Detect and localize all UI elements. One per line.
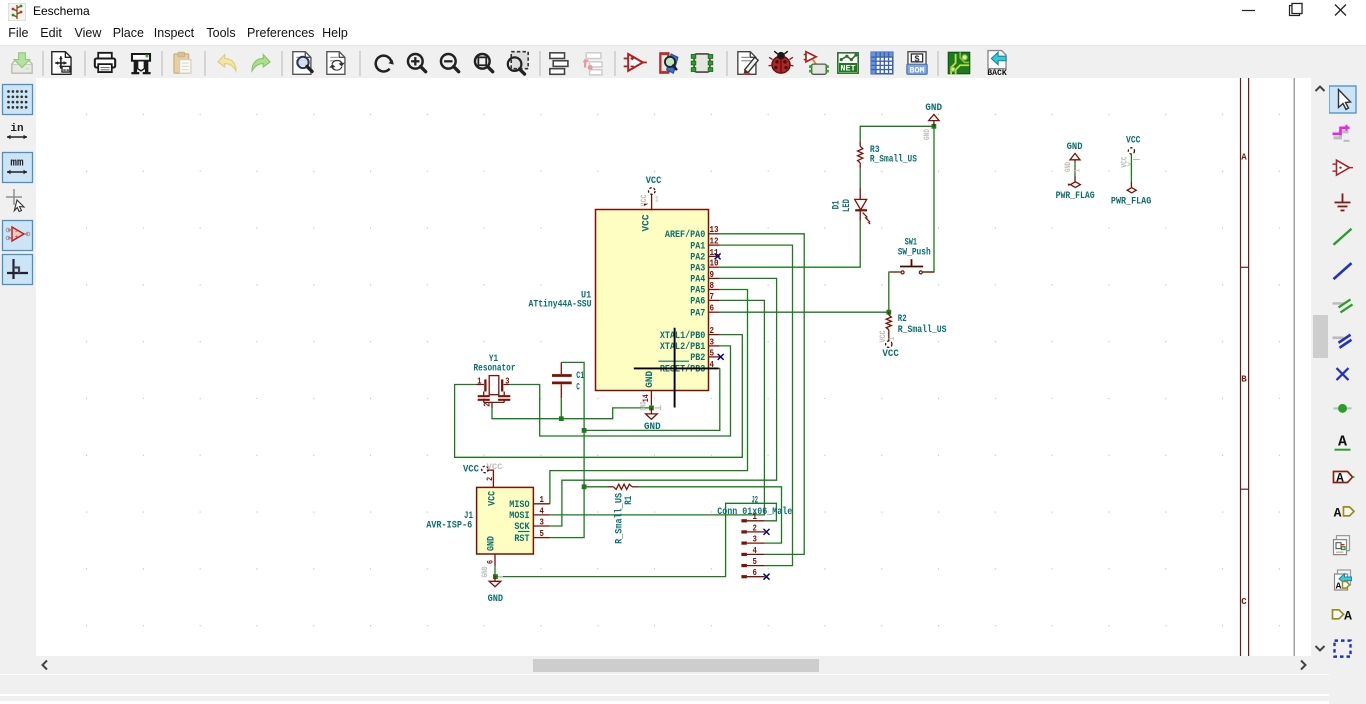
svg-text:GND: GND <box>925 103 942 114</box>
svg-text:GND: GND <box>640 401 649 410</box>
svg-text:>: > <box>1127 162 1131 170</box>
svg-text:13: 13 <box>710 224 719 235</box>
svg-text:GND: GND <box>1065 162 1073 172</box>
svg-text:R_Small_US: R_Small_US <box>898 324 947 336</box>
svg-text:in: in <box>10 123 23 135</box>
svg-text:MISO: MISO <box>509 500 529 511</box>
svg-text:3: 3 <box>505 375 509 386</box>
svg-text:MOSI: MOSI <box>509 511 529 522</box>
svg-text:PB2: PB2 <box>690 353 705 364</box>
svg-text:GND: GND <box>923 129 932 140</box>
svg-text:1: 1 <box>753 511 758 522</box>
svg-text:5: 5 <box>710 347 715 358</box>
svg-text:SW_Push: SW_Push <box>898 246 931 258</box>
svg-text:2: 2 <box>481 402 492 406</box>
svg-text:GND: GND <box>1067 142 1083 153</box>
svg-text:PA3: PA3 <box>690 263 705 274</box>
svg-text:PA2: PA2 <box>690 253 705 264</box>
svg-text:4: 4 <box>540 505 545 516</box>
svg-text:3: 3 <box>753 534 758 545</box>
svg-text:A: A <box>1336 472 1344 486</box>
svg-text:Resonator: Resonator <box>474 363 516 374</box>
svg-text:1: 1 <box>540 494 545 505</box>
svg-text:14: 14 <box>641 394 651 402</box>
svg-text:BACK: BACK <box>987 69 1007 78</box>
svg-text:6: 6 <box>486 560 496 564</box>
svg-text:8: 8 <box>710 280 715 291</box>
svg-text:C1: C1 <box>576 371 584 382</box>
svg-text:1: 1 <box>1075 169 1083 172</box>
svg-text:A: A <box>1344 608 1352 623</box>
svg-text:AVR-ISP-6: AVR-ISP-6 <box>426 521 472 532</box>
svg-text:R2: R2 <box>898 314 907 325</box>
svg-text:XTAL2/PB1: XTAL2/PB1 <box>660 341 705 353</box>
svg-text:2: 2 <box>710 325 715 336</box>
svg-text:GND: GND <box>645 371 656 388</box>
svg-text:C: C <box>1241 597 1247 607</box>
svg-text:C: C <box>576 383 580 394</box>
svg-text:2: 2 <box>485 477 495 481</box>
svg-text:PA6: PA6 <box>690 297 705 308</box>
svg-text:A: A <box>1336 580 1342 591</box>
svg-text:ATtiny44A-SSU: ATtiny44A-SSU <box>529 299 592 311</box>
svg-text:NET: NET <box>840 63 855 73</box>
svg-text:VCC: VCC <box>646 176 662 187</box>
svg-text:GND: GND <box>481 566 490 577</box>
svg-text:B: B <box>1241 375 1247 385</box>
svg-text:XTAL1/PB0: XTAL1/PB0 <box>660 330 705 342</box>
svg-text:PWR_FLAG: PWR_FLAG <box>1056 191 1095 202</box>
svg-text:A: A <box>1334 505 1342 520</box>
svg-text:3: 3 <box>540 516 545 527</box>
svg-text:J2: J2 <box>752 496 759 507</box>
svg-text:PWR_FLAG: PWR_FLAG <box>1111 197 1151 208</box>
svg-text:RST: RST <box>514 534 529 545</box>
svg-text:A: A <box>1338 434 1347 451</box>
svg-text:PA5: PA5 <box>690 286 705 297</box>
svg-text:2: 2 <box>753 522 758 533</box>
svg-text:VCC: VCC <box>1126 136 1141 147</box>
svg-text:1: 1 <box>477 375 481 386</box>
svg-text:+: + <box>15 234 19 241</box>
svg-text:12: 12 <box>710 236 719 247</box>
svg-text:7: 7 <box>710 291 715 302</box>
svg-text:5: 5 <box>753 556 758 567</box>
svg-text:VCC: VCC <box>487 491 498 506</box>
svg-text:5: 5 <box>540 528 545 539</box>
svg-text:GND: GND <box>486 536 497 551</box>
svg-text:6: 6 <box>710 303 715 314</box>
svg-text:1: 1 <box>655 196 658 205</box>
svg-text:RESET/PB3: RESET/PB3 <box>660 364 705 376</box>
svg-text:4: 4 <box>753 545 758 556</box>
svg-text:6: 6 <box>753 567 758 578</box>
svg-text:A: A <box>1241 153 1247 163</box>
svg-text:GND: GND <box>488 594 504 605</box>
svg-text:VCC: VCC <box>882 349 898 360</box>
svg-text:GND: GND <box>644 422 661 433</box>
svg-text:R1: R1 <box>624 496 635 505</box>
svg-text:3: 3 <box>710 336 715 347</box>
svg-text:VCC: VCC <box>487 462 503 472</box>
svg-text:mm: mm <box>10 158 24 170</box>
svg-text:VCC: VCC <box>879 330 888 342</box>
svg-text:9: 9 <box>710 269 715 280</box>
svg-text:PA4: PA4 <box>690 275 705 286</box>
svg-text:PA1: PA1 <box>690 241 705 252</box>
svg-text:VCC: VCC <box>463 465 479 476</box>
svg-text:10: 10 <box>710 258 719 269</box>
svg-text:D1: D1 <box>832 200 843 209</box>
svg-text:PA7: PA7 <box>690 308 705 319</box>
svg-text:R_Small_US: R_Small_US <box>870 154 917 166</box>
svg-text:LED: LED <box>842 199 853 212</box>
svg-text:BOM: BOM <box>909 65 924 75</box>
svg-text:1: 1 <box>888 337 897 340</box>
svg-text:AREF/PA0: AREF/PA0 <box>665 229 705 241</box>
svg-text:$: $ <box>914 53 920 64</box>
svg-text:VCC: VCC <box>641 215 652 232</box>
